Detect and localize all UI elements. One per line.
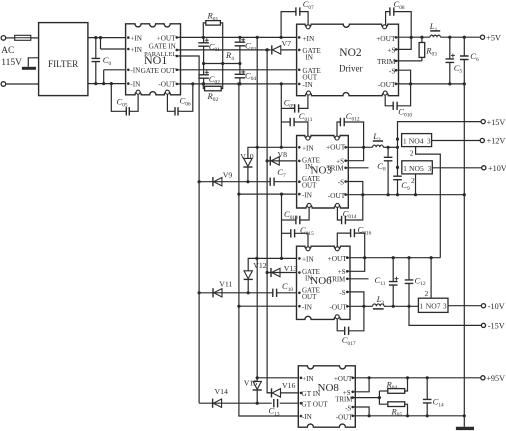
series link NO3-IN to NO6+IN [281,194,283,258]
terminal +10V [482,166,486,170]
capacitor C016 [337,233,350,247]
svg-text:V15: V15 [244,378,258,387]
wire NO6 TRIM stub [347,278,368,280]
jumper -IN1 to -IN2 [103,70,105,84]
svg-text:+OUT: +OUT [328,254,348,263]
svg-text:+IN: +IN [302,375,314,383]
svg-text:+5V: +5V [486,33,501,42]
svg-text:-S: -S [339,289,345,297]
resistor R02 [205,86,222,91]
wire NO8 -OUT row [353,415,465,417]
wire NO6 -OUT row [347,305,372,307]
inductor L1 [430,35,441,37]
capacitor C09 [281,107,294,109]
wire NO7 pin2 up to common [430,258,432,299]
svg-text:NO8: NO8 [318,382,340,394]
svg-text:NO2: NO2 [339,47,362,59]
svg-text:+15V: +15V [487,118,506,127]
terminal -10V [481,304,485,308]
svg-text:+IN: +IN [302,144,314,152]
svg-text:-IN: -IN [302,413,313,421]
svg-text:-10V: -10V [488,302,505,311]
svg-text:+S: +S [336,158,344,166]
svg-text:Driver: Driver [339,63,363,73]
wire NO3 gate-out row [199,181,270,183]
svg-text:+95V: +95V [486,374,505,383]
svg-text:OUT: OUT [302,181,317,189]
svg-text:+IN: +IN [302,256,314,264]
svg-text:IN: IN [305,54,313,62]
capacitor C7 [270,178,274,186]
wire NO3 TRIM stub [346,167,369,169]
svg-text:3: 3 [443,303,447,311]
diode V9 [213,177,222,186]
capacitor C01 [203,37,205,42]
svg-text:-OUT: -OUT [328,191,346,200]
wire NO8 +S to +OUT [353,378,369,392]
diode V13 [271,268,280,277]
wire terminal to fuse [6,37,15,39]
diode V14 [213,399,222,408]
svg-text:V9: V9 [223,171,233,180]
svg-text:+12V: +12V [487,137,506,146]
capacitor C13 [274,399,278,407]
svg-text:+OUT: +OUT [334,375,353,383]
svg-text:-IN: -IN [130,67,141,75]
capacitor C010 [385,95,393,106]
svg-text:NO5: NO5 [409,164,424,173]
wire NO3 -S to -OUT [346,182,363,195]
svg-text:2: 2 [411,176,415,185]
svg-text:+OUT: +OUT [376,34,396,43]
capacitor C017 [337,319,345,331]
svg-text:TRIM: TRIM [328,276,345,283]
wire NO8 +OUT row to +95V [353,377,481,379]
wire NO2 -S to -OUT [396,70,411,84]
wire GATE-IN-PARALLEL row NO1 to NO2 [177,49,271,51]
wire NO3 -OUT common row [346,194,465,196]
capacitor C08 [386,12,390,25]
ground symbol [456,427,474,430]
wire NO8 TRIM row [353,397,380,399]
terminal +5V [480,35,484,39]
wire +15V feed rail [398,122,484,176]
wire NO4 output +12V [432,140,481,142]
svg-text:FILTER: FILTER [48,59,79,69]
svg-text:V7: V7 [282,39,292,48]
capacitor C9 [393,176,402,180]
wire NO2 +S to +OUT [396,37,411,49]
regulator NO7 [418,298,448,312]
capacitor C5 [449,37,451,59]
wire terminal to filter bottom [6,83,39,85]
capacitor C011 [281,121,290,123]
resistor R04 [379,390,387,392]
terminal +12V [480,138,484,142]
capacitor C14 [426,378,428,399]
FILTER block [39,23,88,96]
svg-text:+IN: +IN [130,46,142,54]
wire NO6 +S to +OUT [347,258,364,272]
wire NO8 gate-out row [199,402,272,404]
driver module NO2 [297,24,399,96]
capacitor C014 [337,208,341,220]
AC input terminal bottom [1,82,6,87]
svg-text:TRIM: TRIM [335,397,352,404]
wire NO3 gate-in row [267,160,299,162]
wire GATE OUT row NO1 to NO2 [177,69,299,71]
svg-text:TRIM: TRIM [377,57,396,66]
capacitor C07 [281,12,296,38]
wire NO8 +IN row [257,377,301,379]
svg-text:V10: V10 [240,152,254,161]
ground of filter [28,58,38,67]
svg-text:+10V: +10V [488,164,506,173]
wire NO4 pin2 to ground link [416,147,441,258]
capacitor C013 [282,219,297,221]
wire -OUT row NO1 to NO2 [177,83,299,85]
diode V10 [243,158,252,167]
wire NO5 output +10V [432,167,481,169]
wire NO7 output -10V [448,305,481,307]
capacitor C03 [239,37,241,42]
svg-text:2: 2 [410,149,414,158]
wire NO5 pin2 to -OUT row [415,174,417,195]
svg-text:2: 2 [425,289,429,298]
diode V11 [213,288,222,297]
svg-text:V12: V12 [253,261,267,270]
capacitor C10 [273,289,277,297]
svg-text:GATE IN: GATE IN [149,43,176,51]
svg-text:1: 1 [403,138,407,146]
regulator NO5 [402,161,433,174]
wire NO8 -S to -OUT [353,407,369,416]
AC input terminal top [1,36,6,41]
diode V16 [267,392,301,394]
capacitor C12 [408,258,410,280]
svg-text:-S: -S [345,404,351,412]
wire NO2 -OUT row to ground rail [396,83,464,85]
resistor R01 [206,21,221,26]
svg-text:+OUT: +OUT [157,35,176,43]
capacitor C8 [387,147,389,157]
wire +OUT row NO1 to NO2 [177,36,299,38]
diode V7 [272,45,281,54]
diode V12 [244,271,253,280]
svg-text:+IN: +IN [130,35,142,43]
wire NO2 TRIM row [396,60,422,62]
svg-text:115V: 115V [1,58,22,68]
svg-text:+S: +S [387,46,395,55]
svg-text:V11: V11 [219,280,232,289]
svg-text:1: 1 [420,303,424,311]
gate drive bus from PARALLEL pin [177,56,199,403]
DC-DC module NO6 [297,246,351,319]
gate-in bus rail [267,50,271,393]
svg-text:-S: -S [389,66,396,75]
svg-text:NO7: NO7 [426,302,441,311]
svg-text:NO1: NO1 [144,53,167,67]
svg-text:-IN: -IN [302,80,313,89]
wire NO3 -IN row [239,193,299,195]
svg-text:V14: V14 [215,387,229,396]
svg-text:OUT: OUT [302,293,317,301]
wire fuse to filter [31,37,39,39]
svg-text:V16: V16 [282,381,296,390]
wire -15V line [409,306,481,325]
svg-text:-OUT: -OUT [378,80,396,89]
jumper +IN2 to +IN [100,38,102,49]
wire NO2 +OUT row to +5V [396,36,430,38]
ground bus rail right [463,84,465,427]
capacitor C015 [282,232,291,234]
capacitor C6 [463,37,465,56]
svg-text:-S: -S [338,178,344,186]
svg-text:3: 3 [427,138,431,146]
svg-text:-OUT: -OUT [336,413,353,421]
terminal +95V [481,376,485,380]
capacitor C06 [167,94,175,111]
svg-text:-OUT: -OUT [329,303,347,312]
wire NO6 +OUT common row [347,257,440,259]
capacitor C0 [95,38,97,59]
svg-text:TRIM: TRIM [327,165,344,172]
wire NO6 gate-in row [267,272,299,274]
series link NO2-IN to NO3+IN [280,84,282,147]
wire NO3 +OUT row [346,146,373,148]
svg-text:V8: V8 [278,150,288,159]
terminal -15V [481,323,485,327]
svg-text:AC: AC [1,46,14,56]
svg-text:-15V: -15V [488,322,505,331]
svg-text:3: 3 [428,165,432,173]
wire filter to NO1 +IN row [88,37,128,39]
wire V10 bottom lead [247,167,249,182]
DC-DC module NO3 [297,136,349,209]
negative bus rail [239,84,301,416]
svg-text:-IN: -IN [130,80,141,88]
svg-text:-OUT: -OUT [158,81,176,89]
svg-text:V13: V13 [284,264,298,273]
diode V15 [256,378,258,382]
capacitor C05 [111,84,126,112]
svg-text:GT OUT: GT OUT [302,401,329,409]
svg-text:NO4: NO4 [409,137,424,146]
wire NO6 +IN row [248,258,299,270]
positive bus rail [256,37,258,377]
diode V8 [270,156,279,165]
capacitor C04 [239,64,241,75]
wire filter to NO1 -IN row [88,83,128,85]
svg-text:+IN: +IN [302,34,315,43]
resistor R05 [379,398,387,405]
wire NO3 +S to +OUT [346,147,364,160]
svg-text:1: 1 [403,165,407,173]
wire NO6 -S to -OUT [347,292,364,306]
inductor L3 [373,304,384,306]
svg-text:+OUT: +OUT [326,143,346,152]
wire NO3 +IN row [248,147,299,158]
terminal +15V [481,120,485,124]
inductor L2 [373,145,384,147]
capacitor C02 [203,64,205,75]
DC-DC module NO8 [298,366,355,427]
capacitor C012 [337,122,340,136]
regulator NO4 [402,134,432,147]
svg-text:+S: +S [338,268,346,276]
wire NO6 gate-out row [199,292,273,294]
svg-text:-IN: -IN [302,304,313,312]
DC-DC module NO1 [126,24,181,95]
wire NO6 -IN row [239,305,300,307]
wire V12 bottom lead [247,279,249,292]
resistor R03 trim [421,37,423,42]
fuse F1 [15,35,31,40]
wire mid node row [204,63,240,65]
capacitor C11 [392,258,394,282]
svg-text:GATE OUT: GATE OUT [141,67,177,75]
svg-text:-IN: -IN [302,192,313,200]
